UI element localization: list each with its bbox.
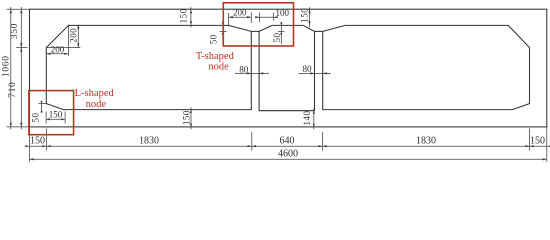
bottom extension right web: [322, 132, 324, 151]
svg-text:100: 100: [275, 8, 289, 18]
bottom dimension line row2 (4600): [30, 158, 547, 160]
svg-text:150: 150: [530, 136, 545, 147]
bottom extension left outer: [29, 127, 31, 162]
svg-text:1830: 1830: [139, 136, 159, 147]
left cell outline: [46, 25, 251, 109]
web 80 dim line left: [235, 72, 269, 74]
slab 150 dim line left of T-node: [190, 7, 192, 27]
svg-text:150: 150: [299, 8, 309, 23]
arrows L-node 50: [41, 101, 43, 104]
arrows T-node right 50: [280, 22, 282, 25]
extension line bottom-left: [7, 126, 30, 128]
svg-text:350: 350: [10, 23, 20, 39]
svg-text:node: node: [86, 99, 107, 110]
slab 150 dim line right of T-node: [309, 7, 311, 27]
svg-text:T-shaped: T-shaped: [196, 51, 235, 62]
tick at haunch bottom left: [220, 30, 227, 32]
svg-text:200: 200: [69, 28, 79, 43]
L-node 50 dim line: [41, 101, 43, 113]
svg-text:4600: 4600: [278, 148, 298, 159]
tick at haunch bottom right: [278, 30, 285, 32]
arrows floor 150: [190, 110, 192, 113]
arrows T-node 100: [255, 16, 259, 18]
arrows floor 140: [313, 111, 315, 114]
chamfer 200 extension horizontal: [46, 47, 80, 49]
web 80 dim line right: [299, 72, 332, 74]
svg-text:80: 80: [239, 64, 249, 74]
arrows row1 at left 150 segment: [25, 145, 29, 147]
L-node 150 dim line: [46, 118, 65, 120]
outer outline of girder cross-section: [30, 9, 547, 127]
bottom extension right wall: [529, 129, 531, 151]
svg-text:L-shaped: L-shaped: [75, 88, 115, 99]
svg-text:80: 80: [303, 64, 313, 74]
arrows T-node 200: [229, 16, 233, 18]
svg-text:1830: 1830: [416, 136, 436, 147]
arrows row1 at right 150 segment: [525, 145, 529, 147]
svg-text:150: 150: [30, 136, 45, 147]
arrows 1060: [10, 9, 12, 13]
red highlight box T-shaped node: [223, 3, 293, 46]
T-node 200 dim line: [229, 16, 252, 18]
chamfer horizontal 200 dim line: [46, 53, 68, 55]
bottom extension right outer: [546, 127, 548, 162]
chamfer 200 extension vertical: [68, 25, 70, 56]
arrows web 80 right: [310, 72, 314, 74]
L-node tick at haunch top: [39, 103, 47, 105]
svg-text:200: 200: [51, 44, 65, 54]
svg-text:150: 150: [49, 109, 63, 119]
right web top flat: [315, 30, 323, 32]
svg-text:150: 150: [178, 8, 188, 23]
svg-text:200: 200: [233, 8, 247, 18]
T-node 100 dim line: [255, 16, 278, 18]
dimension line 350-710: [20, 7, 22, 129]
arrows T-node left 50: [222, 22, 224, 25]
right cell outline: [323, 25, 530, 109]
T-node left 50 dim line: [222, 21, 224, 43]
extension tick at 350/710 split: [16, 47, 27, 49]
svg-text:50: 50: [209, 34, 219, 44]
arrows 350 / 710: [20, 9, 22, 13]
arrows web 80 left: [247, 72, 251, 74]
svg-text:1060: 1060: [2, 55, 12, 77]
left web top flat: [251, 30, 259, 32]
arrows row1 at web ticks: [248, 145, 252, 147]
floor 140 dim line middle cell: [313, 108, 315, 129]
floor 150 dim line left cell: [190, 107, 192, 129]
svg-text:140: 140: [302, 111, 312, 126]
T-node right 50 dim line: [280, 23, 282, 45]
svg-text:640: 640: [280, 136, 295, 147]
arrows row2 4600: [30, 158, 34, 160]
svg-text:150: 150: [181, 110, 191, 125]
svg-text:50: 50: [31, 113, 41, 123]
middle cell outline: [259, 25, 314, 110]
L-node 150 extension right: [64, 112, 66, 124]
extension line top-left: [7, 8, 30, 10]
bottom dimension line row1: [30, 145, 547, 147]
red highlight box L-shaped node: [29, 91, 74, 135]
arrows slab 150 left: [190, 9, 192, 13]
bottom extension left web: [251, 132, 253, 151]
arrows slab 150 right: [308, 9, 310, 13]
arrows chamfer 200 vertical: [77, 25, 79, 29]
L-node 150 extension left: [45, 112, 47, 124]
arrows L-node 150: [46, 118, 50, 120]
T-node 100 extensions: [259, 13, 261, 22]
chamfer vertical 200 dim line: [77, 25, 79, 48]
svg-text:50: 50: [272, 33, 282, 43]
bottom extension left wall: [45, 129, 47, 151]
svg-text:node: node: [208, 62, 229, 73]
arrows chamfer 200 horizontal: [46, 53, 50, 55]
T-node 200 extensions: [228, 13, 230, 27]
svg-text:710: 710: [8, 82, 18, 98]
dimension line 1060: [10, 7, 12, 129]
